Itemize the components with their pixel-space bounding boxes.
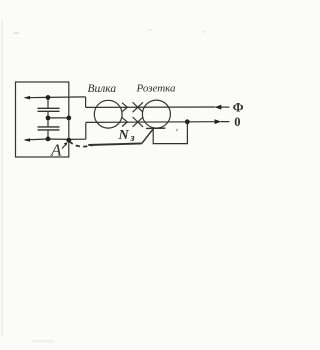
socket U2 circle (Розетка) — [142, 100, 170, 128]
wire top jog to plug — [85, 97, 87, 108]
arrowhead left top — [24, 96, 31, 100]
svg-text:Ф: Ф — [233, 101, 244, 115]
svg-text:Розетка: Розетка — [136, 83, 177, 95]
svg-text:N: N — [118, 128, 130, 143]
svg-text:А: А — [50, 140, 62, 159]
wire earth loop to neutral — [153, 122, 187, 144]
node top of capacitor chain — [46, 95, 51, 100]
leader line N3 diagonal — [142, 129, 153, 143]
svg-text:0: 0 — [234, 115, 240, 129]
node A on box wall — [66, 138, 71, 143]
connector mate X top — [133, 102, 143, 112]
wire bottom jog to plug — [85, 122, 87, 139]
capacitor C2 — [38, 127, 60, 130]
wire bottom inside box — [25, 138, 86, 141]
arrowhead left bottom — [24, 138, 31, 142]
svg-text:Вилка: Вилка — [88, 83, 117, 95]
connector mate X bottom — [133, 117, 143, 127]
arrowhead neutral (points right) — [215, 119, 222, 124]
plug U1 circle (Вилка) — [94, 100, 122, 128]
svg-text:з: з — [130, 133, 135, 144]
socket earth contact bar — [146, 127, 165, 129]
plug pin chevron bottom — [122, 117, 128, 126]
leader line N3 horizontal — [88, 143, 142, 145]
plug pin chevron top — [122, 103, 128, 112]
wire bottom rail — [86, 121, 216, 124]
capacitor C1 — [38, 108, 60, 111]
arrowhead of label A pointer — [64, 142, 68, 145]
wire top rail — [86, 106, 216, 108]
node capacitor midpoint — [46, 116, 51, 121]
tick mark 1 — [176, 129, 178, 131]
node neutral junction — [185, 119, 190, 124]
wire line after arrow F — [221, 106, 230, 108]
wire capacitor midpoint to box wall — [48, 117, 69, 119]
shield box (meter enclosure) — [16, 82, 69, 157]
dashed link A to N3 — [70, 141, 95, 146]
arrowhead phase (points left) — [215, 105, 222, 110]
label A pointer arrow — [62, 144, 67, 149]
node bottom of capacitor chain — [46, 137, 51, 142]
wire capacitor chain vertical — [47, 97, 49, 138]
wire line after arrow 0 — [221, 121, 230, 123]
wire top inside box — [25, 96, 85, 99]
node midpoint on box wall — [66, 116, 71, 121]
